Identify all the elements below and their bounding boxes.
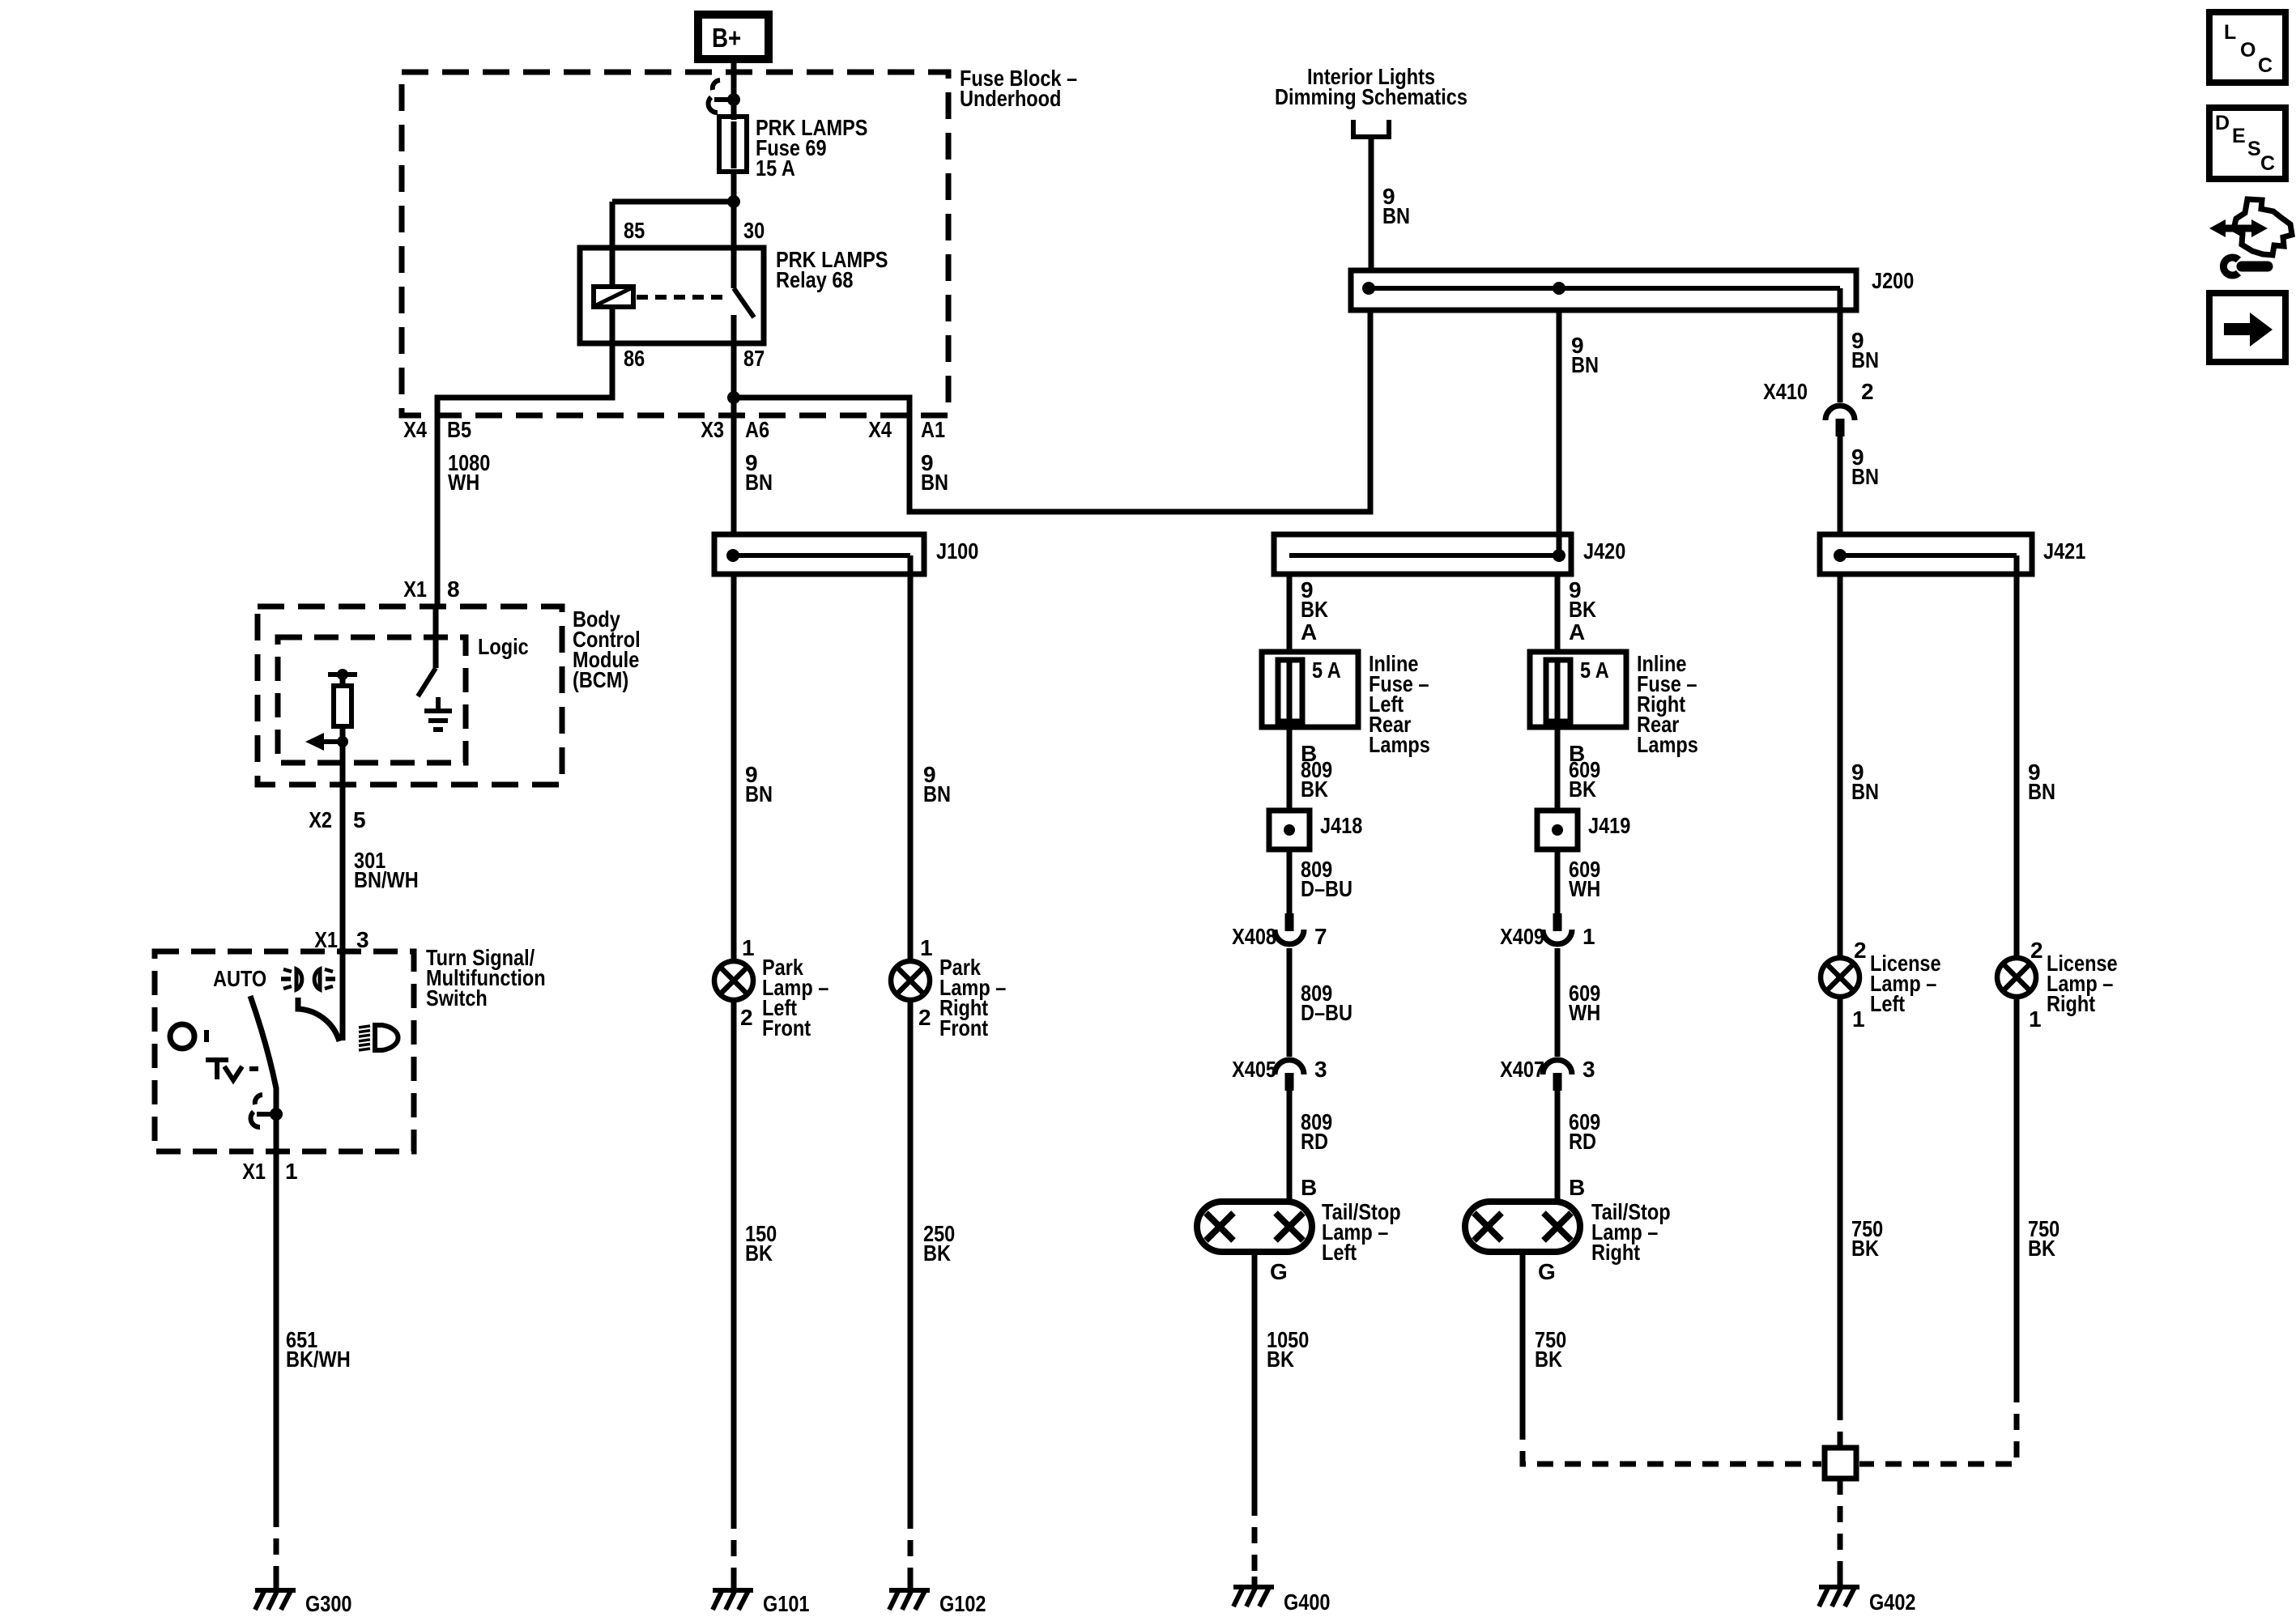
- fuse clip contact: [709, 80, 740, 113]
- splice pack J100: [714, 534, 924, 574]
- ground G300: [255, 1580, 296, 1610]
- relay switch contact 30-87: [734, 248, 754, 343]
- svg-text:3: 3: [1582, 1057, 1595, 1082]
- park lamp right front: [891, 961, 930, 1000]
- wire BCM output to X2 5: [340, 742, 346, 820]
- label wire 809 BK: [1301, 757, 1332, 802]
- svg-text:7: 7: [1314, 924, 1327, 949]
- svg-text:X1: X1: [242, 1159, 266, 1184]
- svg-text:J100: J100: [936, 538, 978, 564]
- svg-text:BK: BK: [923, 1240, 951, 1266]
- svg-text:1: 1: [920, 935, 933, 960]
- wire park lamp right to G102: [908, 1001, 914, 1513]
- label wire 609 WH lower: [1569, 981, 1600, 1025]
- svg-text:BK: BK: [2028, 1236, 2055, 1261]
- node relay 87 junction: [727, 391, 740, 404]
- svg-text:X410: X410: [1763, 379, 1808, 404]
- svg-text:30: 30: [743, 218, 765, 243]
- label Park Lamp Right Front: [939, 955, 1006, 1040]
- wire J421 to license lamp left: [1838, 574, 1843, 958]
- wire X3 A6 to J100: [731, 415, 737, 534]
- svg-text:BN: BN: [1851, 464, 1879, 489]
- wire J200 right to X410: [1838, 288, 1843, 402]
- svg-text:Relay 68: Relay 68: [776, 267, 854, 292]
- splice J419: [1537, 811, 1578, 849]
- svg-text:1: 1: [2029, 1006, 2042, 1032]
- svg-text:BN: BN: [2028, 779, 2055, 804]
- svg-text:BN: BN: [745, 781, 773, 806]
- svg-text:WH: WH: [1569, 876, 1600, 901]
- svg-text:BN: BN: [1851, 347, 1879, 372]
- node relay 30/85 branch: [612, 195, 740, 248]
- svg-text:S: S: [2247, 138, 2261, 160]
- label wire 9 BN at A1: [921, 450, 948, 495]
- svg-text:RD: RD: [1301, 1129, 1328, 1154]
- wire 651 BK/WH: [274, 1151, 279, 1511]
- turn signal multifunction switch dashed box: [155, 951, 414, 1151]
- label wire 9 BN interior: [1382, 184, 1410, 228]
- svg-text:BK: BK: [1267, 1347, 1294, 1372]
- svg-text:E: E: [2232, 125, 2246, 147]
- svg-text:B+: B+: [712, 23, 741, 53]
- svg-text:Switch: Switch: [426, 985, 488, 1011]
- BCM dashed box: [258, 606, 562, 785]
- label wire 150 BK: [745, 1221, 777, 1266]
- wire X409 to X407: [1555, 948, 1561, 1057]
- svg-text:J421: J421: [2043, 538, 2085, 564]
- svg-text:WH: WH: [1569, 1000, 1600, 1025]
- wire fuse to relay node: [731, 172, 737, 248]
- wire relay 86 to X4 B5: [437, 343, 612, 415]
- tail stop lamp right: [1465, 1202, 1580, 1252]
- svg-text:WH: WH: [448, 470, 479, 495]
- license lamp right: [1997, 958, 2036, 997]
- label wire 301 BN/WH: [354, 848, 419, 892]
- svg-text:Left: Left: [1322, 1240, 1357, 1265]
- svg-text:2: 2: [918, 1005, 931, 1030]
- svg-text:Right: Right: [1591, 1240, 1640, 1265]
- ground G402: [1819, 1577, 1859, 1606]
- wire J420 to inline fuse Left: [1287, 574, 1293, 652]
- wire dashed to G400: [1252, 1500, 1258, 1577]
- svg-text:BN: BN: [1851, 779, 1879, 804]
- relay actuation dashed link: [637, 295, 727, 300]
- wire J200 left south: [1368, 310, 1374, 512]
- svg-text:J420: J420: [1583, 538, 1625, 564]
- label wire 9 BN at A6: [745, 450, 773, 495]
- label wire 9 BK A Left: [1301, 577, 1328, 645]
- svg-text:BN: BN: [921, 470, 948, 495]
- icon next arrow box: [2209, 293, 2285, 362]
- label connector X2 pin 5: [309, 807, 365, 832]
- icon LOC box: [2209, 12, 2285, 83]
- svg-text:X407: X407: [1500, 1057, 1544, 1082]
- label PRK LAMPS Fuse 69 15 A: [756, 115, 868, 181]
- switch OFF position circle: [170, 1024, 194, 1049]
- license lamp left: [1821, 958, 1859, 997]
- svg-text:C: C: [2258, 54, 2273, 77]
- svg-text:5 A: 5 A: [1312, 657, 1341, 683]
- svg-text:1: 1: [1852, 1006, 1865, 1032]
- svg-text:BN: BN: [745, 470, 773, 495]
- label wire 609 WH upper: [1569, 857, 1600, 901]
- svg-text:G101: G101: [763, 1591, 810, 1616]
- label wire 750 BK license right: [2028, 1216, 2060, 1261]
- svg-text:G: G: [1538, 1259, 1556, 1284]
- label wire 9 BK A Right: [1569, 577, 1596, 645]
- label wire 9 BN right: [1851, 328, 1879, 372]
- label License Lamp Left: [1870, 951, 1941, 1016]
- svg-text:RD: RD: [1569, 1129, 1596, 1154]
- BCM output arrow: [305, 733, 348, 751]
- BCM input switch to ground: [418, 606, 436, 696]
- BCM internal ground: [424, 697, 452, 730]
- svg-text:Lamps: Lamps: [1637, 732, 1698, 757]
- inline fuse 5A Left: [1262, 652, 1358, 727]
- svg-text:A: A: [1301, 619, 1317, 645]
- svg-text:BK/WH: BK/WH: [286, 1347, 351, 1372]
- svg-text:Lamps: Lamps: [1369, 732, 1430, 757]
- wire X407 to tail lamp: [1555, 1091, 1561, 1202]
- wire 87 junction to X4 A1: [734, 398, 909, 415]
- switch rotary contact arc: [298, 998, 339, 1041]
- label wire 9 BN mid: [1571, 333, 1599, 377]
- wire fuse to J419: [1555, 727, 1561, 811]
- icon DESC box: [2209, 108, 2285, 179]
- wire J100 to park lamp left: [731, 574, 737, 961]
- node J421 left: [1834, 549, 1847, 562]
- svg-text:BK: BK: [1301, 777, 1328, 802]
- wire J420 to inline fuse Right: [1555, 574, 1561, 652]
- wire fuse to J418: [1287, 727, 1293, 811]
- label License Lamp Right: [2047, 951, 2118, 1016]
- svg-text:L: L: [2224, 21, 2236, 44]
- svg-text:2: 2: [1861, 379, 1874, 404]
- splice J418: [1269, 811, 1310, 849]
- label wire 651 BK/WH: [286, 1327, 351, 1372]
- label Body Control Module BCM: [573, 606, 641, 692]
- label wire 9 BN license right: [2028, 760, 2055, 804]
- svg-text:A: A: [1569, 619, 1585, 645]
- svg-text:X3: X3: [701, 417, 724, 442]
- svg-text:1: 1: [285, 1159, 298, 1184]
- label wire 809 RD: [1301, 1109, 1332, 1154]
- svg-text:Underhood: Underhood: [960, 86, 1061, 111]
- svg-text:Left: Left: [1870, 991, 1905, 1016]
- svg-text:BK: BK: [745, 1240, 773, 1266]
- svg-text:Front: Front: [762, 1015, 811, 1040]
- svg-text:X1: X1: [403, 577, 427, 602]
- inline fuse 5A Right: [1530, 652, 1626, 727]
- wire 301 BN/WH: [340, 820, 346, 951]
- svg-text:5: 5: [353, 807, 366, 832]
- splice pack J200: [1351, 270, 1856, 310]
- svg-text:3: 3: [356, 927, 369, 952]
- switch wiper blade: [250, 996, 276, 1114]
- node J200 left: [1362, 282, 1375, 295]
- switch detent dash: [204, 1030, 209, 1042]
- svg-text:J200: J200: [1872, 268, 1914, 293]
- svg-text:BN: BN: [923, 781, 951, 806]
- fuse F69 PRK LAMPS 15A: [719, 100, 747, 172]
- wire J418 to X408: [1287, 849, 1293, 913]
- svg-text:X408: X408: [1232, 924, 1276, 949]
- label Fuse Block - Underhood: [960, 66, 1077, 111]
- label connector X1 pin 8: [403, 577, 459, 602]
- svg-text:BK: BK: [1569, 777, 1596, 802]
- svg-text:BN: BN: [1571, 352, 1599, 377]
- label connector X1 pin 3: [314, 927, 368, 952]
- label wire 609 RD: [1569, 1109, 1600, 1154]
- ground G102: [889, 1580, 930, 1610]
- inline connector X410 pin 2: [1825, 406, 1855, 436]
- svg-text:BK: BK: [1569, 597, 1596, 622]
- wire J100 to park lamp right: [908, 555, 914, 961]
- wire 87 junction to X3 A6: [731, 398, 737, 415]
- label wire 609 BK: [1569, 757, 1600, 802]
- label connector X1 pin 1: [242, 1159, 297, 1184]
- label wire 1080 WH: [448, 450, 490, 495]
- svg-text:BK: BK: [1535, 1347, 1562, 1372]
- svg-text:1: 1: [1582, 924, 1595, 949]
- svg-text:J418: J418: [1320, 813, 1362, 838]
- wire dashed to G102: [908, 1513, 914, 1585]
- label Interior Lights Dimming Schematics: [1275, 64, 1467, 109]
- wire J421 to license lamp right: [2014, 555, 2020, 958]
- label PRK LAMPS Relay 68: [776, 247, 888, 292]
- inline connector X409 pin 1: [1543, 913, 1572, 944]
- svg-text:X409: X409: [1500, 924, 1544, 949]
- svg-text:BK: BK: [1301, 597, 1328, 622]
- svg-text:2: 2: [1854, 938, 1867, 963]
- label wire 750 BK right rear: [1535, 1327, 1566, 1372]
- inline connector X405 pin 3: [1275, 1060, 1304, 1091]
- power symbol B+: [698, 15, 769, 59]
- label Turn Signal Multifunction Switch: [426, 945, 546, 1011]
- BCM pull-up resistor: [328, 669, 357, 742]
- svg-text:BK: BK: [1851, 1236, 1879, 1261]
- svg-text:87: 87: [743, 346, 765, 371]
- label connector X4 pin A1: [868, 417, 945, 442]
- label wire 1050 BK: [1267, 1327, 1309, 1372]
- wire X405 to tail lamp: [1287, 1091, 1293, 1202]
- switch momentary contact: [206, 1060, 258, 1080]
- label wire 9 BN below X410: [1851, 445, 1879, 489]
- label connector X3 pin A6: [701, 417, 769, 442]
- wire tail lamp right to splice: [1520, 1252, 1526, 1423]
- wire license right south: [2014, 997, 2020, 1386]
- svg-text:G102: G102: [939, 1591, 986, 1616]
- svg-text:G400: G400: [1284, 1589, 1331, 1615]
- wire X4 A1 to J200: [909, 310, 1370, 512]
- svg-text:8: 8: [447, 577, 460, 602]
- wire X410 to J421: [1838, 436, 1843, 534]
- label wire 750 BK license left: [1851, 1216, 1883, 1261]
- ground G400: [1233, 1577, 1274, 1606]
- park lamp left front: [714, 961, 753, 1000]
- wire dashed license right to G402 splice: [1859, 1386, 2017, 1464]
- relay K68 PRK LAMPS box: [580, 248, 764, 343]
- svg-text:D: D: [2215, 112, 2230, 134]
- svg-text:2: 2: [2030, 938, 2043, 963]
- label Park Lamp Left Front: [762, 955, 829, 1040]
- svg-text:Front: Front: [939, 1015, 988, 1040]
- icon adjust wrench: [2209, 199, 2292, 275]
- head lamps icon: [359, 1025, 398, 1050]
- svg-text:85: 85: [624, 218, 645, 243]
- node J100 left: [726, 549, 739, 562]
- splice box G402 junction: [1825, 1448, 1856, 1479]
- inline connector X408 pin 7: [1275, 913, 1304, 944]
- label Inline Fuse Right Rear Lamps: [1637, 651, 1698, 757]
- wire relay 87 south: [731, 343, 737, 398]
- svg-text:Dimming Schematics: Dimming Schematics: [1275, 84, 1467, 109]
- wire dashed license left to G402 splice: [1838, 1404, 1843, 1448]
- svg-text:D–BU: D–BU: [1301, 876, 1352, 901]
- svg-text:G402: G402: [1869, 1589, 1916, 1615]
- label Tail Stop Lamp Right: [1591, 1199, 1671, 1265]
- wire switch output to X1 1: [274, 1114, 279, 1151]
- label Tail Stop Lamp Left: [1322, 1199, 1401, 1265]
- svg-text:X4: X4: [868, 417, 892, 442]
- ground G101: [713, 1580, 753, 1610]
- label wire 809 D&#8211;BU upper: [1301, 857, 1352, 901]
- splice pack J421: [1820, 534, 2032, 574]
- wire bracket to J200: [1369, 137, 1374, 270]
- label wire 9 BN right front: [923, 762, 951, 806]
- splice pack J420: [1274, 534, 1571, 574]
- svg-text:Right: Right: [2047, 991, 2095, 1016]
- inline connector X407 pin 3: [1543, 1060, 1572, 1091]
- svg-text:G300: G300: [305, 1591, 352, 1616]
- svg-text:AUTO: AUTO: [213, 966, 266, 991]
- wire license left to splice: [1838, 997, 1843, 1404]
- label wire 9 BN license left: [1851, 760, 1879, 804]
- off-page connector bracket: [1353, 120, 1389, 137]
- svg-text:B: B: [1301, 1175, 1317, 1200]
- svg-text:O: O: [2240, 39, 2256, 62]
- label wire 9 BN left front: [745, 762, 773, 806]
- svg-text:B5: B5: [447, 417, 471, 442]
- wire dashed to G300: [274, 1511, 279, 1585]
- wire B+ to fuse block: [731, 59, 737, 118]
- wire park lamp left to G101: [731, 1001, 737, 1513]
- wire X408 to X405: [1287, 948, 1293, 1057]
- svg-text:86: 86: [624, 346, 645, 371]
- svg-text:Logic: Logic: [478, 634, 529, 659]
- svg-text:B: B: [1569, 1175, 1585, 1200]
- node J420 right: [1553, 549, 1565, 562]
- svg-text:15 A: 15 A: [756, 155, 795, 181]
- wire dashed tail right to G402 splice: [1523, 1423, 1821, 1464]
- label connector X4 pin B5: [403, 417, 471, 442]
- wire dashed splice to G402: [1838, 1479, 1843, 1577]
- relay coil: [594, 248, 633, 343]
- svg-text:1: 1: [742, 935, 755, 960]
- label wire 809 D&#8211;BU lower: [1301, 981, 1352, 1025]
- park lamps icon: [281, 969, 335, 989]
- label wire 250 BK: [923, 1221, 955, 1266]
- wire 1080 WH to BCM: [435, 415, 441, 606]
- wire X1 3 into switch: [340, 951, 346, 1040]
- fuse block underhood dashed box: [402, 72, 948, 415]
- tail stop lamp left: [1197, 1202, 1312, 1252]
- svg-text:2: 2: [740, 1005, 753, 1030]
- svg-text:A6: A6: [745, 417, 769, 442]
- svg-text:X1: X1: [314, 927, 338, 952]
- svg-text:5 A: 5 A: [1580, 657, 1609, 683]
- svg-text:G: G: [1270, 1259, 1288, 1284]
- wire J200 mid to J420: [1557, 310, 1562, 555]
- svg-text:BN/WH: BN/WH: [354, 867, 419, 892]
- svg-text:3: 3: [1314, 1057, 1327, 1082]
- svg-text:(BCM): (BCM): [573, 667, 628, 692]
- svg-text:D–BU: D–BU: [1301, 1000, 1352, 1025]
- wire tail lamp left to G400: [1252, 1252, 1258, 1500]
- svg-text:J419: J419: [1588, 813, 1630, 838]
- wire J419 to X409: [1555, 849, 1561, 913]
- node J200 mid: [1553, 282, 1565, 295]
- svg-text:BN: BN: [1382, 203, 1410, 228]
- label Inline Fuse Left Rear Lamps: [1369, 651, 1430, 757]
- BCM logic dashed box: [278, 637, 466, 763]
- svg-text:X4: X4: [403, 417, 427, 442]
- switch output clip contact: [251, 1095, 283, 1127]
- svg-text:A1: A1: [921, 417, 945, 442]
- svg-text:X2: X2: [309, 807, 332, 832]
- svg-text:C: C: [2260, 152, 2275, 175]
- wire dashed to G101: [731, 1513, 737, 1585]
- svg-text:X405: X405: [1232, 1057, 1276, 1082]
